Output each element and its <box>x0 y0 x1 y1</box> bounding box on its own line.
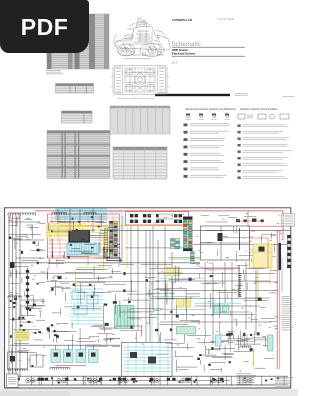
symbol row r5 <box>238 151 241 153</box>
bus junction <box>265 380 267 382</box>
wire <box>243 275 245 281</box>
wire <box>251 312 253 322</box>
left lower node <box>13 302 16 304</box>
wire <box>10 273 12 277</box>
wire <box>235 343 260 345</box>
wire <box>56 260 65 262</box>
wire <box>130 280 132 292</box>
wire <box>8 216 10 222</box>
connector strip CS2 <box>114 221 117 256</box>
wire <box>273 325 278 327</box>
title block text <box>237 374 256 385</box>
wire cross band 3 <box>79 209 81 226</box>
wire <box>118 253 120 255</box>
component <box>89 284 91 286</box>
connector row top mid <box>52 213 66 215</box>
wire <box>56 323 68 325</box>
red box labels <box>133 214 185 223</box>
mint connector block <box>115 306 135 329</box>
wire cyan monitor h <box>123 357 171 359</box>
wire <box>64 306 72 308</box>
ground bus 2 <box>30 380 230 382</box>
left node <box>23 329 26 332</box>
wire <box>264 336 266 347</box>
legend cell bottom-left <box>7 374 19 388</box>
wire <box>81 253 97 255</box>
wire <box>203 338 205 345</box>
wire <box>149 304 151 325</box>
wire <box>244 338 252 340</box>
wire red rung <box>49 247 120 249</box>
labels right top <box>196 213 288 258</box>
ground tap <box>118 376 120 385</box>
wire <box>88 235 108 237</box>
ground tap <box>52 376 54 385</box>
wire <box>13 266 29 268</box>
left circle comb <box>8 296 21 298</box>
component <box>170 311 172 313</box>
wire cyan drop 1 <box>56 209 58 219</box>
wire <box>260 307 266 309</box>
wire <box>78 337 89 339</box>
wire green pair <box>169 256 200 258</box>
legend row 3 <box>282 217 284 220</box>
ground tap <box>239 376 241 385</box>
main connector block <box>69 231 91 243</box>
wire red drop <box>59 215 61 257</box>
wire <box>16 270 18 278</box>
connector symbol row 7 <box>184 168 188 171</box>
wire <box>109 338 120 340</box>
left branch 2 <box>13 239 45 241</box>
wire <box>14 241 16 249</box>
br node <box>229 361 231 363</box>
wire <box>169 279 195 281</box>
symbol text <box>243 144 288 146</box>
connector strip CS3 (yellow) <box>105 228 108 252</box>
wire <box>103 339 114 341</box>
symbol text <box>243 138 290 140</box>
symbol text <box>190 153 223 156</box>
bus junction <box>214 379 216 381</box>
relay block yellow A <box>177 299 184 308</box>
wire <box>177 267 179 282</box>
wire <box>175 351 177 357</box>
wire cyan bus <box>55 211 107 213</box>
wire <box>207 221 228 223</box>
wire <box>158 272 183 274</box>
wire <box>270 234 276 236</box>
component <box>258 298 262 301</box>
bus device <box>150 378 153 381</box>
wire <box>58 221 65 223</box>
wire <box>32 224 34 238</box>
wire cyan monitor h <box>123 360 171 362</box>
tractor side view sketch <box>114 18 170 57</box>
connector strip CS4 <box>184 220 188 249</box>
wire <box>261 235 263 244</box>
svg-text:Electrical System: Electrical System <box>172 52 196 56</box>
main bus GH <box>10 262 200 264</box>
left node <box>28 321 31 323</box>
wire yellow right h <box>253 251 272 253</box>
wire <box>130 308 163 310</box>
cab node <box>91 216 93 218</box>
wire <box>123 299 151 301</box>
monitor module A <box>130 352 137 358</box>
wire <box>111 271 120 273</box>
wire <box>76 278 105 280</box>
wire <box>159 323 188 325</box>
ground tap <box>124 376 126 385</box>
wire <box>261 318 276 320</box>
wire <box>38 241 40 245</box>
symbol row r7 <box>238 164 241 166</box>
trunk wire vertical <box>157 240 159 335</box>
wire <box>18 329 40 331</box>
wire <box>148 289 150 297</box>
component <box>128 301 131 303</box>
wire <box>54 330 77 332</box>
wire <box>274 328 278 330</box>
wire <box>9 319 26 321</box>
bus device <box>17 378 20 381</box>
wire <box>273 256 277 258</box>
bus connector dots <box>27 380 251 382</box>
left node <box>12 318 14 321</box>
ground tap <box>151 376 153 385</box>
solenoid coil 4 <box>91 353 95 357</box>
wire <box>185 296 187 311</box>
symbol text <box>190 175 227 178</box>
wire <box>274 289 278 291</box>
wire <box>14 342 29 344</box>
relay block yellow B <box>185 299 191 308</box>
solenoid coil 1 <box>54 353 58 357</box>
left lower node <box>18 317 20 320</box>
wire <box>24 292 26 297</box>
wire yellow bus <box>46 229 106 231</box>
cab node <box>98 226 100 227</box>
component <box>58 276 62 279</box>
branch bus <box>150 314 255 316</box>
wire <box>166 346 193 348</box>
wire <box>72 307 102 309</box>
wire yellow gauge v <box>75 271 77 292</box>
wire <box>34 339 43 341</box>
wire <box>97 333 112 335</box>
wire <box>52 251 54 258</box>
branch bus <box>155 280 270 282</box>
wire <box>256 300 269 302</box>
component <box>170 328 172 331</box>
wire <box>229 334 231 339</box>
cab node <box>91 247 94 249</box>
wire <box>38 281 45 283</box>
wire <box>69 250 93 252</box>
ground tap <box>153 376 155 385</box>
wire red mid v <box>141 325 143 337</box>
wire <box>146 293 175 295</box>
wire cyan net <box>70 313 103 315</box>
fuse rows <box>16 333 28 338</box>
terminal TB4 <box>261 220 264 223</box>
wire <box>175 305 177 315</box>
wire <box>104 338 120 340</box>
wire <box>116 257 118 258</box>
wire <box>30 226 32 231</box>
valve driver teal A <box>214 305 221 313</box>
symbol row r1 <box>238 125 241 127</box>
switch panel box (cyan) <box>67 243 82 255</box>
left node <box>10 335 12 338</box>
branch bus <box>160 321 272 323</box>
wire <box>186 293 200 295</box>
wire <box>244 297 270 299</box>
wire <box>230 311 232 316</box>
bus device <box>172 378 175 381</box>
loop inner h <box>201 242 251 244</box>
wire <box>208 350 210 355</box>
harness left wire 2 <box>12 215 14 378</box>
wire <box>219 346 221 351</box>
gauge module 2 (cyan) <box>74 306 87 315</box>
connector symbol row 6 <box>184 160 188 163</box>
wire <box>241 339 250 341</box>
wire <box>53 275 62 277</box>
wire <box>176 360 178 372</box>
wire <box>64 252 66 258</box>
cab node <box>107 257 109 258</box>
wire cyan bus <box>55 208 107 210</box>
wire <box>10 283 17 285</box>
note under T1 <box>46 70 64 74</box>
wire <box>43 346 45 348</box>
wire <box>157 353 168 355</box>
svg-text:Symbols Used On This Schematic: Symbols Used On This Schematic <box>240 108 278 111</box>
wire <box>24 306 34 308</box>
wire <box>41 301 45 303</box>
wire <box>55 282 57 296</box>
svg-text:Form No. SENR: Form No. SENR <box>218 18 235 21</box>
wire red drop C <box>87 258 89 266</box>
wire <box>269 292 277 294</box>
wire <box>101 328 112 330</box>
parts table T1 <box>47 14 109 69</box>
solenoid coil 3 <box>79 353 83 357</box>
wire <box>210 362 225 364</box>
legend row 6 <box>282 222 284 225</box>
wire <box>201 283 218 285</box>
branch bus <box>150 297 262 299</box>
trunk wire vertical <box>212 262 214 345</box>
trunk wire vertical <box>164 226 166 320</box>
loop inner v <box>220 226 222 260</box>
wire <box>50 286 64 288</box>
wire <box>23 321 33 323</box>
wire cyan drop 2 <box>64 209 66 224</box>
component <box>113 301 117 304</box>
wire <box>191 263 200 265</box>
wire <box>166 342 185 344</box>
diode pack <box>218 233 223 241</box>
wire red rung <box>49 251 120 253</box>
wire cyan net <box>70 292 103 294</box>
cab node <box>76 229 78 231</box>
wire <box>71 335 73 350</box>
wire yellow right v1 <box>257 268 259 300</box>
page shadow bottom <box>0 389 298 396</box>
bus device <box>118 378 121 381</box>
wire cyan net <box>70 288 103 290</box>
inline component 5 <box>26 295 29 298</box>
grid table T5b <box>113 147 167 179</box>
wire magenta <box>196 266 212 271</box>
wire <box>219 321 221 336</box>
inline component 1 <box>26 270 29 273</box>
branch bus <box>150 267 240 269</box>
wire <box>185 288 187 300</box>
aux box outline <box>30 355 43 367</box>
wire yellow bus <box>46 232 106 234</box>
wire <box>97 276 99 282</box>
wire <box>10 270 12 277</box>
br node <box>197 358 200 360</box>
wire <box>218 215 229 217</box>
terminal TB3 <box>252 219 256 222</box>
solenoid lead 2 <box>67 345 69 350</box>
component <box>181 326 184 329</box>
cab node <box>82 238 85 240</box>
component <box>257 332 260 335</box>
bus junction <box>135 381 137 383</box>
wire cyan bus <box>55 217 107 219</box>
cab power mesh (red) <box>48 214 120 258</box>
wire <box>91 326 103 328</box>
bus junction <box>213 378 215 380</box>
connector symbol row 5 <box>184 153 188 156</box>
wire <box>36 352 38 365</box>
left node <box>33 304 36 306</box>
controller (mint) <box>177 327 196 335</box>
wire <box>205 282 224 284</box>
wire <box>246 283 248 290</box>
wire <box>19 352 36 354</box>
ground tap <box>191 376 193 385</box>
wire <box>93 266 95 278</box>
wire <box>56 336 58 343</box>
harness left wire 4 <box>19 215 21 378</box>
wire <box>212 298 214 316</box>
wire <box>104 323 106 333</box>
ground tap <box>211 376 213 385</box>
ground tap <box>225 376 227 385</box>
cab node <box>111 244 114 246</box>
wire <box>270 270 278 272</box>
wire <box>166 283 168 302</box>
left lower node <box>20 325 23 327</box>
wire <box>105 229 112 231</box>
solenoid lead 3 <box>80 345 82 350</box>
symbol text <box>243 164 288 166</box>
component <box>228 333 233 336</box>
thick harness elbow 2 <box>107 249 122 261</box>
symbol text <box>243 125 289 127</box>
wire pink drop A <box>48 258 50 270</box>
wire <box>236 319 238 326</box>
grid table T5a <box>110 106 170 134</box>
wire cyan bus <box>55 212 107 214</box>
wire <box>269 321 278 323</box>
solenoid lead 4 <box>92 345 94 350</box>
junction loop <box>201 226 250 260</box>
trunk wire vertical <box>171 252 173 340</box>
wire <box>252 337 267 339</box>
connector symbol row 2 <box>184 131 188 134</box>
wire <box>263 344 265 346</box>
wire <box>145 277 156 279</box>
trunk wire vertical <box>137 226 139 330</box>
wire <box>113 244 120 246</box>
wire <box>87 345 108 347</box>
wire red rung <box>49 243 120 245</box>
cluster node <box>51 324 53 326</box>
wire <box>204 345 206 355</box>
left branch 4 <box>20 299 44 301</box>
wire <box>243 269 245 274</box>
wire <box>46 268 48 279</box>
wire <box>59 221 74 223</box>
wire <box>243 332 245 346</box>
wire dark vertical pair <box>239 228 241 250</box>
bus connector circles <box>26 378 252 382</box>
wire <box>85 345 87 350</box>
legend row 1 <box>282 214 284 217</box>
wire red rung <box>49 239 120 241</box>
wire <box>236 251 238 262</box>
wire <box>77 282 106 284</box>
left node <box>37 283 39 285</box>
bus junction <box>131 379 133 381</box>
wire <box>16 217 18 226</box>
wire <box>29 308 42 310</box>
wire <box>212 341 224 343</box>
solenoid driver 3 (teal) <box>76 350 86 363</box>
solenoid lead 1 <box>55 345 57 350</box>
comb feed wire <box>238 265 240 274</box>
trunk wire vertical <box>152 226 154 310</box>
wire <box>49 259 51 264</box>
wire <box>74 285 92 287</box>
wire <box>56 348 58 351</box>
legend row 2 <box>282 215 284 218</box>
component <box>91 296 93 299</box>
bus device <box>38 378 41 381</box>
component <box>226 333 230 336</box>
monitor module B <box>148 357 156 364</box>
wire <box>66 255 89 257</box>
wire <box>52 331 70 333</box>
notes column right <box>282 296 294 330</box>
left node <box>29 308 31 311</box>
wire <box>201 214 209 216</box>
wire <box>251 258 253 262</box>
symbol text <box>190 131 229 134</box>
trunk wire vertical <box>224 262 226 303</box>
cluster node <box>48 330 50 332</box>
harness left wire 3 <box>15 215 17 378</box>
wire <box>223 237 251 239</box>
